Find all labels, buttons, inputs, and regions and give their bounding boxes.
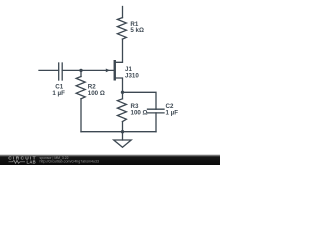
node gate junction: [79, 69, 82, 72]
svg-text:1 µF: 1 µF: [52, 90, 65, 97]
resistor R3: [117, 99, 126, 122]
resistor R3 bottom lead: [122, 122, 124, 132]
svg-text:5 kΩ: 5 kΩ: [130, 27, 144, 34]
transistor J1 source lead: [116, 78, 123, 92]
wire bottom rail: [81, 131, 156, 133]
resistor R3 top lead: [122, 92, 124, 99]
svg-text:1 µF: 1 µF: [166, 109, 179, 116]
wire C2 bottom lead: [155, 113, 157, 132]
ground: [114, 132, 132, 148]
capacitor C1 plate left: [58, 63, 60, 80]
resistor R2 top lead: [80, 70, 82, 76]
svg-text:http://circuitlab.com/c/4hg7ah: http://circuitlab.com/c/4hg7ahsm4u33: [40, 159, 100, 163]
transistor J1 channel bar: [114, 61, 116, 79]
svg-text:100 Ω: 100 Ω: [131, 109, 148, 116]
node source junction: [121, 91, 124, 94]
svg-text:LAB: LAB: [27, 160, 37, 165]
svg-text:J310: J310: [125, 72, 139, 79]
transistor J1 gate lead: [62, 69, 113, 71]
logo CircuitLab squiggle: [9, 160, 26, 163]
wire node S to C2: [123, 92, 157, 109]
resistor R1: [117, 18, 126, 39]
wire input: [39, 69, 59, 71]
transistor J1 gate arrow: [106, 69, 110, 73]
capacitor C2 plate bottom: [148, 112, 165, 114]
wire R1 to drain: [116, 39, 123, 62]
capacitor C1 plate right: [61, 63, 63, 80]
resistor R2 bottom lead: [80, 99, 82, 132]
resistor R2: [76, 77, 85, 99]
capacitor C2 plate top: [148, 108, 165, 110]
svg-text:100 Ω: 100 Ω: [88, 90, 105, 97]
wire top stub to R1: [122, 7, 124, 18]
node ground junction: [121, 130, 124, 133]
